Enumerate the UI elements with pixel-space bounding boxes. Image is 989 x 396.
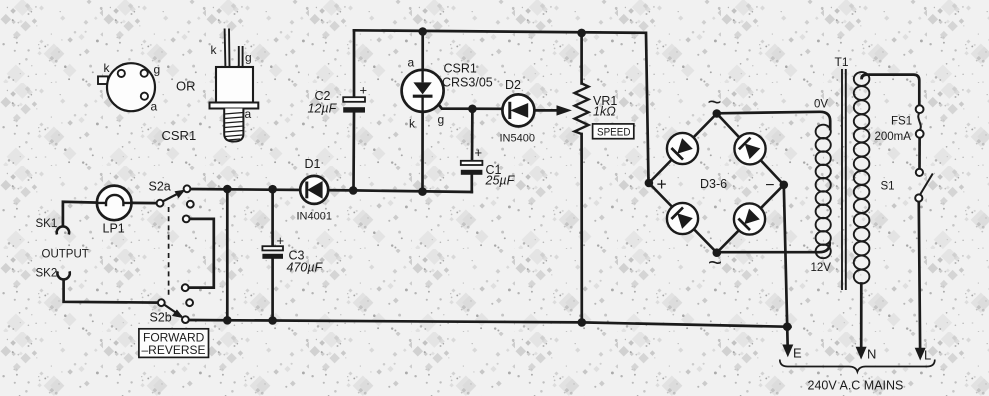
- capacitor C3: [262, 233, 323, 275]
- wire bottom rail: [187, 320, 791, 327]
- bridge diode D5 (bottom-left): [667, 203, 698, 234]
- svg-text:a: a: [151, 100, 158, 114]
- junction bridge minus / bottom rail / E: [783, 322, 792, 331]
- node bridge minus: [780, 181, 789, 190]
- svg-text:25µF: 25µF: [485, 174, 516, 188]
- transformer T1 primary winding: [854, 72, 870, 283]
- wire bridge minus to bottom rail and E: [784, 185, 788, 348]
- svg-text:SK1: SK1: [36, 218, 58, 230]
- wire VR1 bottom lead: [580, 134, 583, 322]
- svg-text:+: +: [475, 145, 483, 160]
- svg-text:a: a: [245, 107, 252, 121]
- svg-text:~: ~: [708, 250, 722, 277]
- wire CSR1 cathode lead: [421, 112, 424, 192]
- svg-text:k: k: [409, 117, 416, 131]
- svg-text:+: +: [657, 174, 667, 194]
- svg-text:~: ~: [708, 89, 722, 116]
- svg-text:N: N: [867, 347, 876, 362]
- svg-text:IN4001: IN4001: [297, 211, 332, 223]
- svg-text:S1: S1: [881, 181, 895, 193]
- svg-text:240V A.C MAINS: 240V A.C MAINS: [808, 379, 904, 393]
- svg-text:S2a: S2a: [149, 180, 171, 194]
- svg-text:T1: T1: [835, 55, 849, 69]
- diode D1: [297, 157, 332, 223]
- svg-text:–REVERSE: –REVERSE: [142, 343, 206, 357]
- potentiometer VR1: [575, 83, 618, 134]
- junction branch x227 / output rail: [223, 185, 232, 194]
- bridge rectifier D3-6 frame: [649, 114, 784, 253]
- wire FS1 to S1: [918, 138, 921, 169]
- wire bridge bottom corner to 12V: [717, 243, 830, 252]
- svg-text:g: g: [245, 51, 252, 65]
- bridge diode D4 (top-right): [734, 133, 765, 164]
- wire VR1 top lead: [580, 33, 583, 84]
- svg-text:CSR1: CSR1: [444, 62, 477, 76]
- svg-text:CSR1: CSR1: [162, 128, 197, 143]
- svg-text:−: −: [765, 177, 774, 194]
- socket SK1: [36, 218, 70, 235]
- wire top supply rail: [354, 30, 649, 183]
- svg-text:L: L: [924, 348, 931, 363]
- junction VR1 top / top rail: [577, 29, 586, 38]
- wire C3 bottom lead: [271, 259, 274, 321]
- svg-text:200mA: 200mA: [875, 131, 912, 143]
- svg-text:D1: D1: [305, 157, 321, 171]
- wire S1 to L arrow: [919, 202, 920, 349]
- svg-text:g: g: [438, 113, 445, 127]
- wire primary top to FS1: [862, 75, 920, 106]
- wire C3 top lead: [271, 189, 274, 246]
- wire gate line CSR1 to D2: [433, 96, 503, 109]
- bridge diode D3 (top-left): [667, 133, 698, 164]
- terminal arrow E: [782, 345, 802, 361]
- junction C2 bottom / output rail: [349, 186, 358, 195]
- junction C3 top / output rail: [268, 185, 277, 194]
- wire vertical branch x=227: [226, 189, 229, 320]
- transformer T1 secondary winding: [816, 125, 831, 259]
- wire C2 bottom lead: [352, 112, 355, 191]
- junction C3 bottom / bottom rail: [268, 316, 277, 325]
- node bridge plus: [645, 179, 654, 188]
- capacitor C2: [308, 83, 368, 116]
- thyristor CSR1 package (can bottom view): [98, 61, 160, 114]
- SPEED label box: [593, 124, 634, 139]
- svg-text:OR: OR: [176, 79, 196, 94]
- svg-text:0V: 0V: [814, 99, 828, 111]
- mechanical link S2a-S2b (dashed): [168, 207, 170, 298]
- wire C1 bottom lead: [470, 174, 473, 192]
- transformer T1 core: [842, 69, 846, 290]
- wire CSR1 anode lead: [421, 31, 424, 70]
- wire primary bottom to N arrow: [860, 284, 863, 350]
- svg-text:12V: 12V: [811, 262, 832, 274]
- wire C2 top lead: [353, 30, 356, 97]
- diode D2: [500, 78, 535, 145]
- switch S2b: [150, 284, 194, 324]
- junction VR1 bottom / bottom rail: [578, 318, 587, 327]
- capacitor C1: [461, 145, 516, 188]
- svg-text:LP1: LP1: [103, 222, 125, 236]
- svg-text:a: a: [408, 56, 415, 70]
- thyristor CSR1 symbol: [402, 56, 493, 131]
- wire output rail (D1 rail): [189, 189, 472, 192]
- svg-text:IN5400: IN5400: [500, 133, 535, 145]
- svg-text:12µF: 12µF: [308, 102, 338, 116]
- junction branch x227 / bottom rail: [223, 316, 232, 325]
- fuse FS1: [875, 105, 924, 143]
- svg-text:OUTPUT: OUTPUT: [42, 249, 89, 261]
- svg-text:g: g: [154, 63, 161, 77]
- wire SK1 to LP1: [63, 202, 97, 226]
- svg-text:+: +: [277, 233, 285, 248]
- terminal arrow L: [915, 348, 932, 363]
- svg-text:SK2: SK2: [36, 268, 58, 280]
- svg-text:CRS3/05: CRS3/05: [442, 76, 493, 90]
- mains brace: [780, 360, 935, 372]
- svg-text:D3-6: D3-6: [700, 177, 727, 191]
- terminal arrow N: [856, 347, 877, 362]
- wire bridge top corner to 0V: [717, 112, 830, 129]
- svg-text:470µF: 470µF: [287, 261, 324, 275]
- svg-text:FS1: FS1: [891, 116, 912, 128]
- socket SK2: [36, 268, 70, 280]
- svg-text:D2: D2: [505, 78, 521, 92]
- svg-text:+: +: [360, 83, 368, 98]
- svg-text:E: E: [793, 346, 802, 361]
- lamp LP1: [97, 186, 132, 236]
- svg-text:S2b: S2b: [150, 311, 172, 325]
- wire D2 to VR1 wiper: [534, 109, 558, 112]
- svg-text:k: k: [211, 43, 218, 57]
- thyristor CSR1 package (stud view): [210, 29, 259, 142]
- svg-text:1kΩ: 1kΩ: [593, 105, 616, 119]
- junction CSR1 anode / top rail: [418, 27, 427, 36]
- switch S1: [881, 169, 933, 202]
- svg-text:k: k: [104, 61, 111, 75]
- node bridge AC top: [713, 109, 722, 118]
- wire LP1 to S2a pole: [131, 202, 157, 205]
- bridge diode D6 (bottom-right): [734, 203, 765, 234]
- wire crossover S2a to S2b: [188, 219, 213, 288]
- wire SK2 to S2b pole: [64, 280, 159, 303]
- junction CSR1 cathode / output rail: [418, 187, 427, 196]
- node bridge AC bottom: [713, 248, 722, 257]
- svg-text:SPEED: SPEED: [597, 126, 631, 138]
- FORWARD-REVERSE label box: [139, 329, 209, 358]
- wire C1 top lead: [471, 109, 474, 161]
- junction gate node / C1 top: [468, 105, 477, 114]
- switch S2a: [149, 180, 194, 223]
- wiper arrowhead into VR1: [557, 105, 572, 115]
